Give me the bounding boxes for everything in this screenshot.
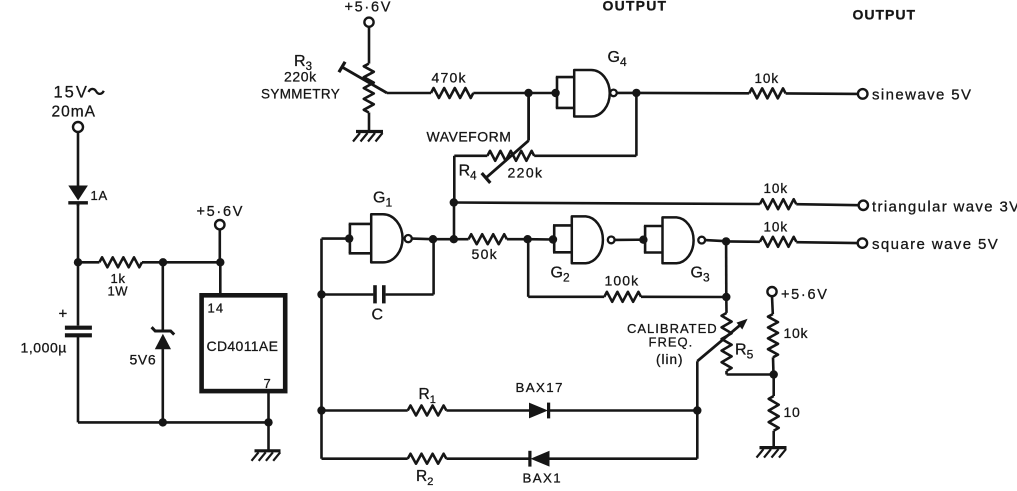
svg-text:(lin): (lin) (656, 352, 684, 367)
wire triangular line (454, 203, 760, 205)
svg-text:1,000µ: 1,000µ (21, 340, 67, 356)
wire square line (726, 240, 760, 243)
wire (529, 92, 556, 95)
wire (549, 409, 698, 412)
wire (786, 92, 858, 95)
resistor 10 (divider) (769, 396, 801, 431)
label CALIBRATED FREQ lin (627, 321, 718, 367)
wire (796, 241, 858, 245)
svg-text:7: 7 (264, 376, 271, 391)
svg-text:1W: 1W (108, 284, 129, 299)
resistor R1 (408, 386, 447, 416)
IC U1 CD4011AE (202, 295, 286, 391)
resistor 470k (431, 70, 473, 99)
svg-text:10k: 10k (764, 181, 788, 196)
wire R3 wiper to 470k (387, 92, 431, 95)
svg-text:OUTPUT: OUTPUT (853, 7, 917, 23)
node triangular tap (450, 198, 458, 206)
node G1 output (429, 235, 437, 243)
wire (267, 422, 270, 450)
node G4 input bar (551, 89, 559, 97)
NAND gate G2 (551, 216, 615, 284)
wire (772, 357, 775, 374)
node zener tap (159, 258, 167, 266)
terminal +5.6V (top) (345, 0, 393, 27)
svg-text:50k: 50k (472, 246, 498, 262)
node rail-gnd (264, 418, 272, 426)
node divider mid (770, 370, 778, 378)
node R1/R2/wiper (693, 406, 701, 414)
wire (796, 204, 858, 205)
wire (322, 409, 408, 412)
wire (615, 238, 644, 241)
diode BAX1 (523, 451, 563, 486)
wire (705, 240, 726, 241)
wire (772, 431, 775, 448)
wire R5 wiper down (696, 361, 699, 459)
svg-text:OUTPUT: OUTPUT (603, 0, 668, 14)
svg-text:+5·6V: +5·6V (345, 0, 393, 16)
svg-text:BAX17: BAX17 (516, 380, 564, 395)
svg-text:220k: 220k (284, 69, 317, 85)
node rail-R1 (317, 406, 325, 414)
terminal 15V AC input (52, 84, 104, 133)
svg-text:14: 14 (208, 301, 225, 316)
svg-text:+: + (59, 306, 68, 323)
wire G4 feedback (534, 93, 636, 156)
node G2 input bar (549, 235, 557, 243)
capacitor 1,000u electrolytic (21, 262, 92, 422)
wire (219, 229, 222, 295)
svg-text:100k: 100k (605, 273, 640, 289)
label WAVEFORM (427, 129, 512, 145)
wire 100k branch (528, 239, 604, 297)
resistor 100k (604, 273, 641, 302)
svg-text:CD4011AE: CD4011AE (207, 338, 279, 354)
svg-text:10k: 10k (755, 71, 779, 86)
resistor 10k (divider) (768, 314, 808, 357)
svg-text:10: 10 (784, 404, 801, 420)
wire (550, 457, 698, 460)
wire (322, 457, 408, 460)
svg-text:+5·6V: +5·6V (197, 204, 245, 220)
wire (433, 238, 454, 241)
resistor R2 (408, 454, 447, 488)
svg-text:BAX1: BAX1 (523, 471, 563, 486)
potentiometer R3 220k SYMMETRY (261, 53, 387, 113)
diode D1 1A (series rectifier) (68, 186, 108, 207)
svg-text:WAVEFORM: WAVEFORM (427, 129, 512, 145)
svg-text:1A: 1A (91, 188, 109, 203)
svg-text:5V6: 5V6 (130, 352, 157, 368)
left feedback rail (320, 239, 323, 459)
wire (453, 156, 456, 203)
svg-text:10k: 10k (784, 325, 809, 341)
resistor 1k 1W (78, 257, 163, 298)
zener diode 5V6 (130, 262, 175, 422)
wire G3out down (725, 241, 728, 297)
op-amp-style NAND gate G4 (556, 49, 627, 117)
wire (77, 204, 80, 262)
pin 7 label (264, 376, 271, 391)
wire (641, 295, 726, 298)
ground (IC pin 7) (252, 451, 281, 461)
wire (446, 409, 529, 412)
wire (446, 457, 529, 460)
terminal +5.6V (right) (767, 287, 828, 303)
ground (divider) (757, 448, 787, 458)
bottom rail wire (78, 421, 269, 424)
wire (473, 92, 528, 95)
svg-text:sinewave 5V: sinewave 5V (872, 87, 972, 104)
terminal triangular output (859, 199, 1017, 216)
resistor 10k (square) (760, 220, 796, 247)
node G4 input / R4 wiper (524, 89, 532, 97)
terminal square output (858, 236, 999, 253)
svg-text:220k: 220k (508, 165, 544, 181)
NAND gate G3 (644, 217, 710, 284)
terminal +5.6V (left) (197, 204, 245, 229)
output header label 1 (603, 0, 668, 14)
wire (771, 296, 774, 314)
node rail-zener (159, 418, 167, 426)
wire G1 input to rail (322, 237, 350, 240)
wire (453, 203, 456, 240)
svg-text:20mA: 20mA (52, 104, 97, 121)
potentiometer R5 (CALIBRATED FREQ lin) (697, 297, 774, 375)
wire (368, 113, 371, 132)
diode BAX17 (516, 380, 564, 418)
terminal sinewave output (858, 87, 973, 104)
potentiometer R4 220k WAVEFORM (454, 93, 543, 183)
svg-text:C: C (372, 307, 384, 324)
wire (368, 27, 371, 64)
resistor 10k (triangular) (760, 181, 796, 209)
svg-text:SYMMETRY: SYMMETRY (261, 87, 340, 102)
svg-text:+5·6V: +5·6V (781, 287, 829, 303)
resistor 50k (454, 234, 528, 262)
resistor 10k (sine) (749, 71, 785, 98)
wire (163, 261, 220, 264)
wire pin 7 (267, 391, 270, 422)
NAND gate G1 (349, 190, 412, 263)
node R4/G1-output junction (450, 235, 458, 243)
node rail-capacitor (317, 290, 325, 298)
wire (412, 237, 433, 240)
node +5.6V rail (216, 258, 224, 266)
svg-text:470k: 470k (432, 70, 467, 86)
wire (636, 92, 749, 95)
wire (77, 132, 80, 186)
wire (772, 375, 775, 397)
ground (R3) (353, 132, 383, 142)
pin 14 label (208, 301, 225, 316)
node G1 input (345, 234, 353, 242)
node G4 output (632, 89, 640, 97)
capacitor C (322, 239, 434, 323)
svg-text:triangular wave 3V: triangular wave 3V (872, 199, 1017, 216)
svg-text:square wave 5V: square wave 5V (872, 236, 999, 253)
wire (617, 92, 637, 95)
node G2 input net (523, 235, 531, 243)
node 100k/R5 (722, 293, 730, 301)
node rectifier output (74, 258, 82, 266)
node G3 output (722, 237, 730, 245)
svg-text:10k: 10k (764, 220, 788, 235)
wire (528, 238, 553, 241)
svg-text:15V: 15V (54, 84, 89, 102)
node G3 input (639, 236, 647, 244)
output header label 2 (853, 7, 917, 23)
svg-text:FREQ.: FREQ. (649, 335, 694, 350)
